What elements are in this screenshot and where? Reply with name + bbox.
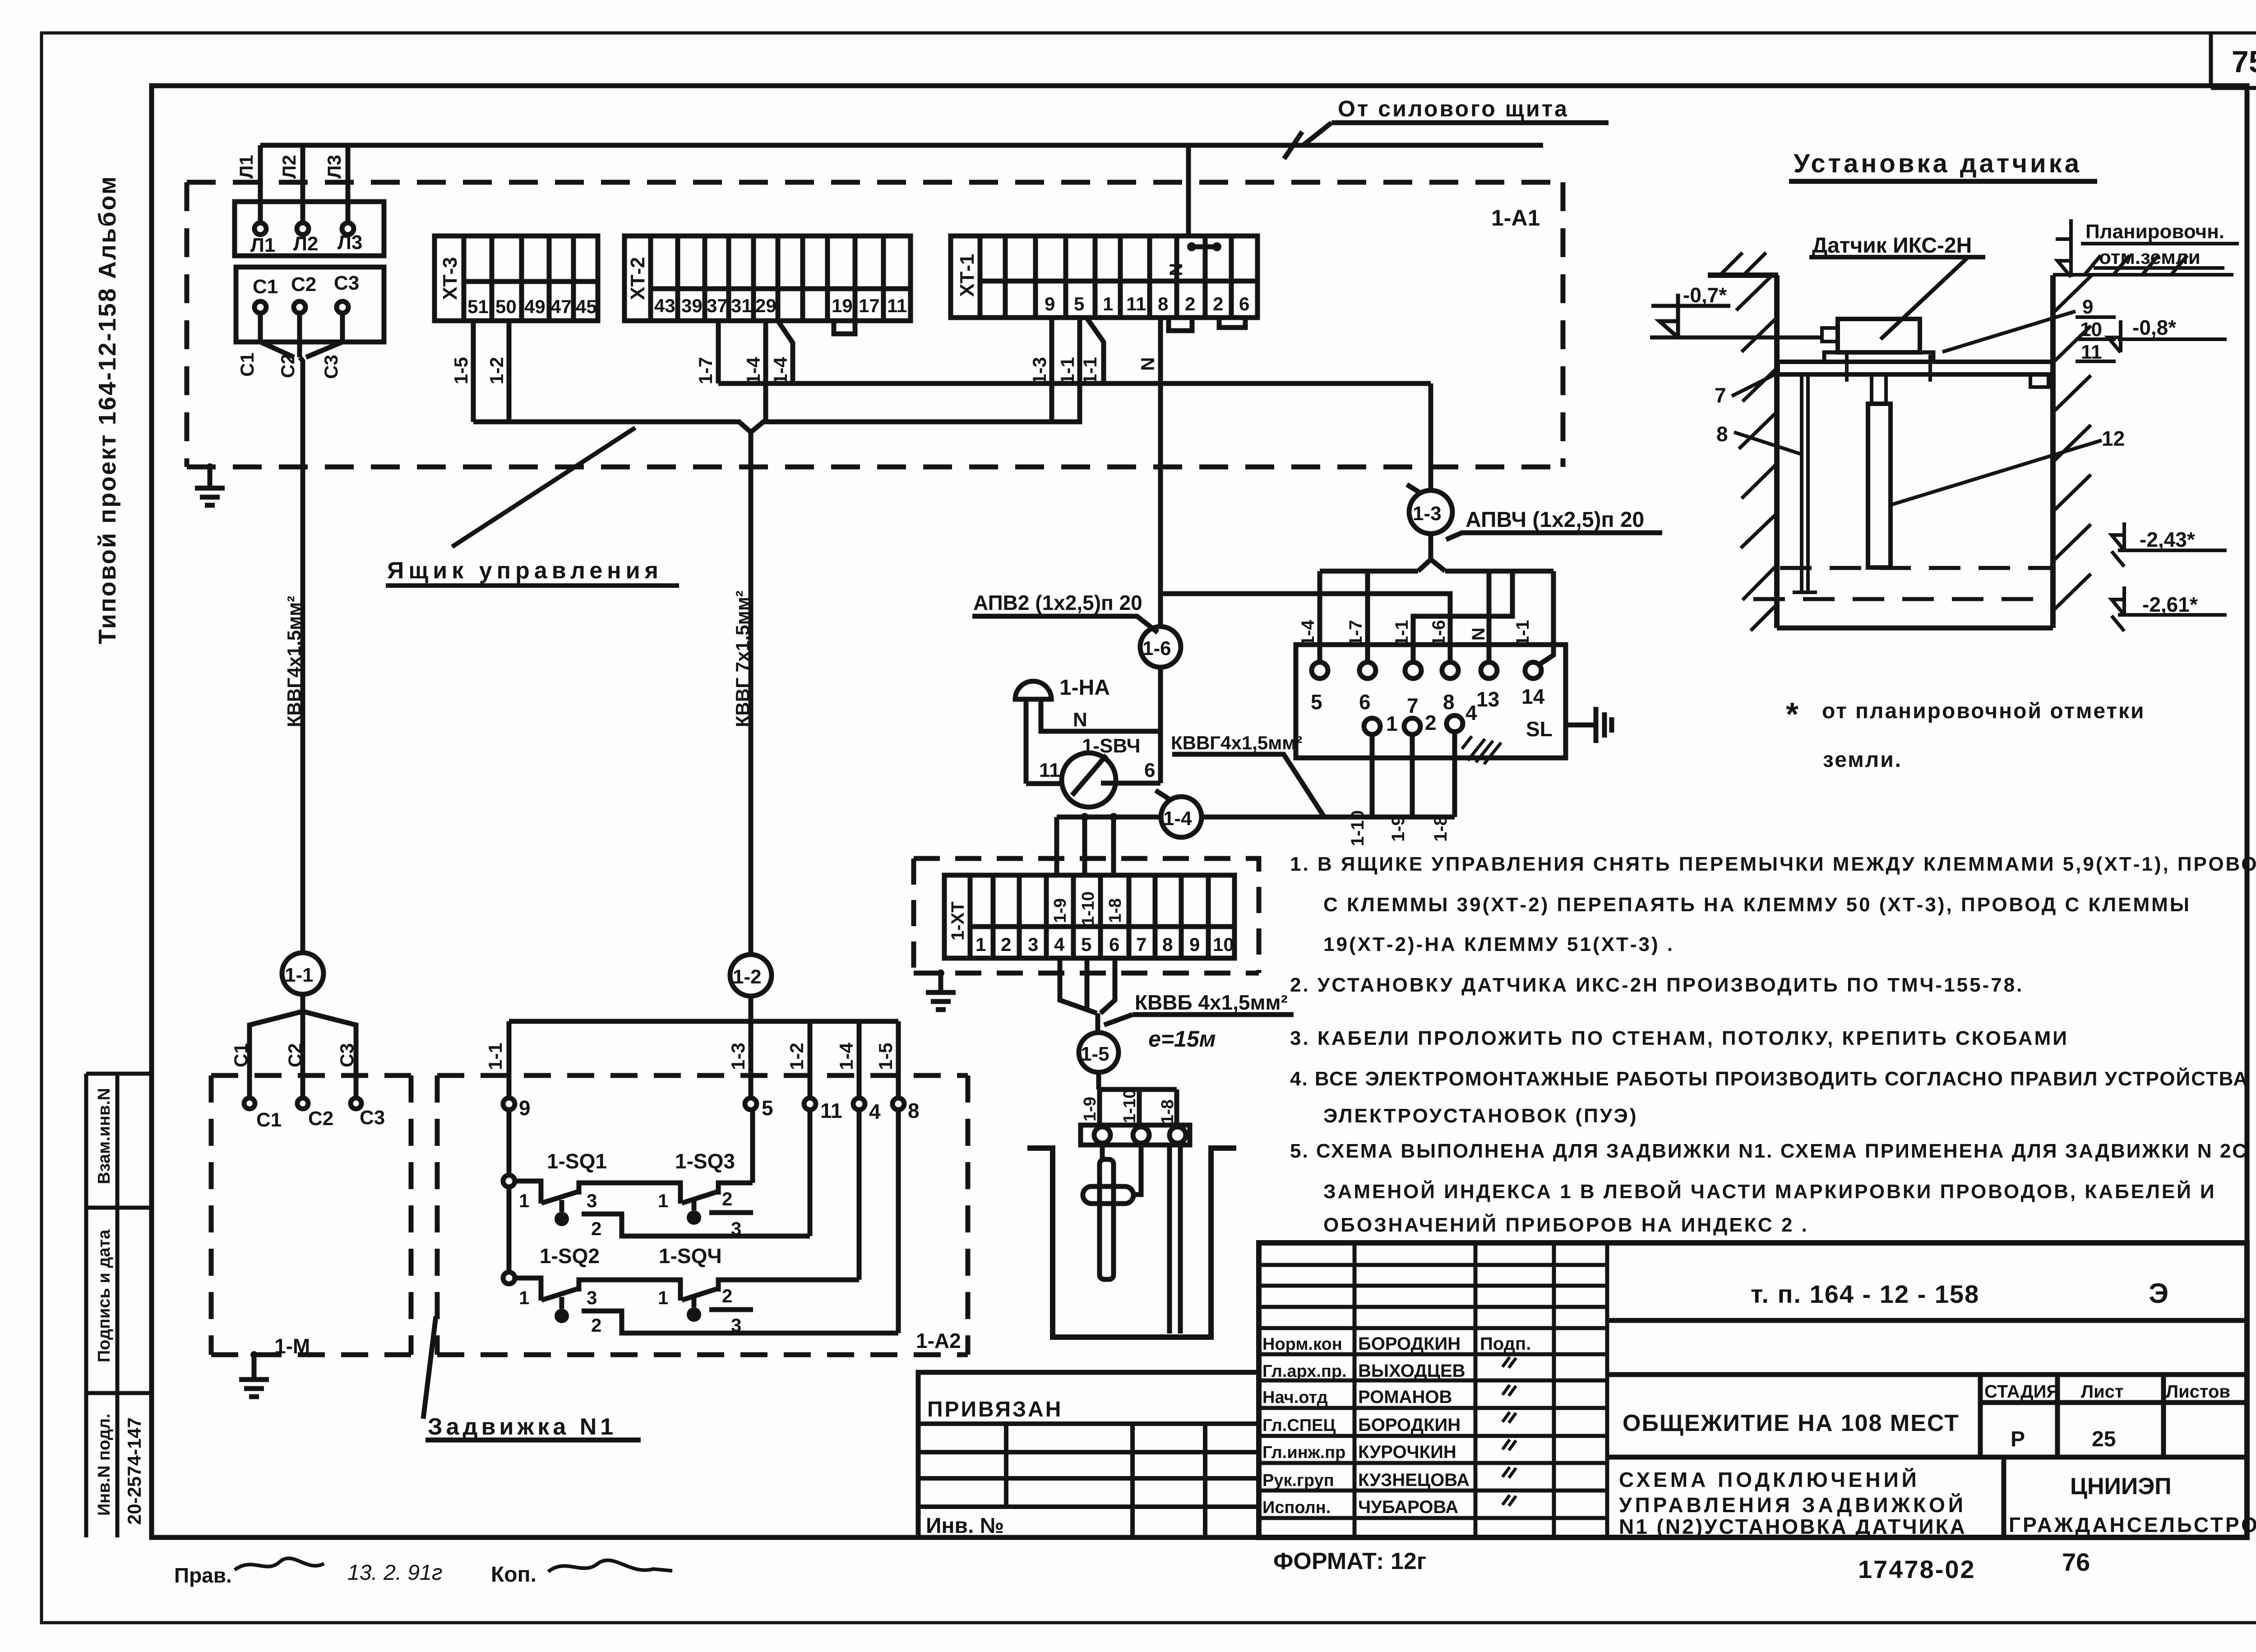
svg-text:2: 2 xyxy=(1185,293,1195,314)
svg-text:ЧУБАРОВА: ЧУБАРОВА xyxy=(1358,1497,1458,1517)
svg-text:С2: С2 xyxy=(291,273,316,295)
switch left lead xyxy=(1026,781,1063,786)
svg-text:1-1: 1-1 xyxy=(1057,357,1078,384)
wire 1-7 to pin 6 xyxy=(1365,571,1370,662)
sensor side stub xyxy=(1822,328,1838,341)
level mark -0,7 xyxy=(1651,294,1730,337)
svg-text:10: 10 xyxy=(2080,318,2102,341)
ground below valve box xyxy=(239,1355,269,1397)
svg-text:1-SQ2: 1-SQ2 xyxy=(540,1244,600,1268)
svg-text:-2,43*: -2,43* xyxy=(2140,528,2195,551)
wire 1-4 to pin 5 xyxy=(1318,571,1322,662)
svg-text:С1: С1 xyxy=(230,1043,251,1067)
svg-text:19(ХТ-2)-НА КЛЕММУ 51(ХТ-3) .: 19(ХТ-2)-НА КЛЕММУ 51(ХТ-3) . xyxy=(1323,933,1674,955)
svg-text:7: 7 xyxy=(1715,383,1726,407)
labels 9 10 11 stack lines xyxy=(2076,317,2116,361)
svg-text:СХЕМА ПОДКЛЮЧЕНИЙ: СХЕМА ПОДКЛЮЧЕНИЙ xyxy=(1619,1468,1920,1491)
svg-text:9: 9 xyxy=(1045,293,1055,314)
jumper link in XT-1 top row xyxy=(1192,245,1217,249)
cable marker circle 1-6 xyxy=(1140,627,1181,667)
wire 1-10 from pin 1 xyxy=(1370,734,1375,817)
sensor cable bus A right segment xyxy=(1445,569,1553,574)
svg-text:SL: SL xyxy=(1526,717,1553,741)
svg-text:Гл.арх.пр.: Гл.арх.пр. xyxy=(1262,1362,1347,1381)
svg-text:С1: С1 xyxy=(256,1109,282,1131)
svg-text:1-6: 1-6 xyxy=(1142,637,1171,660)
wire 1-6 branch from N riser to pin 8 xyxy=(1160,594,1450,662)
svg-text:N: N xyxy=(1469,628,1489,641)
fan to bracket xyxy=(1100,1089,1177,1125)
svg-text:2: 2 xyxy=(591,1218,601,1239)
svg-text:СТАДИЯ: СТАДИЯ xyxy=(1984,1382,2059,1402)
svg-text:5: 5 xyxy=(762,1096,773,1120)
wire 1-8 from pin 4 xyxy=(1452,732,1457,817)
svg-text:11: 11 xyxy=(887,295,907,316)
svg-text:Л3: Л3 xyxy=(324,155,345,179)
limit switch 1-SQ1 contacts xyxy=(515,1181,680,1204)
svg-text:Планировочн.: Планировочн. xyxy=(2085,221,2224,243)
svg-text:С1: С1 xyxy=(253,276,278,298)
svg-text:1-А1: 1-А1 xyxy=(1491,205,1540,231)
svg-text:ЭЛЕКТРОУСТАНОВОК (ПУЭ): ЭЛЕКТРОУСТАНОВОК (ПУЭ) xyxy=(1323,1105,1638,1127)
terminal block XT-3 xyxy=(435,236,598,321)
anchor rod left xyxy=(1793,374,1817,592)
leader from 9 to plate xyxy=(1942,311,2076,352)
SQ3 actuator dot xyxy=(692,1200,697,1210)
svg-text:1: 1 xyxy=(658,1287,668,1308)
svg-text:1-10: 1-10 xyxy=(1348,810,1368,846)
wire N from XT-1 terminal 8 xyxy=(1158,318,1163,783)
svg-text:4: 4 xyxy=(1465,701,1477,724)
svg-text:13. 2. 91г: 13. 2. 91г xyxy=(347,1561,443,1585)
svg-text:ХТ-1: ХТ-1 xyxy=(956,254,978,297)
svg-text:1-8: 1-8 xyxy=(1106,898,1125,923)
svg-text:1-8: 1-8 xyxy=(1158,1099,1177,1124)
svg-text:С3: С3 xyxy=(360,1107,385,1129)
SQ1 pivot circle xyxy=(503,1175,515,1187)
svg-text:5. СХЕМА ВЫПОЛНЕНА ДЛЯ ЗАД: 5. СХЕМА ВЫПОЛНЕНА ДЛЯ ЗАДВИЖКИ N1. СХЕМ… xyxy=(1290,1140,2248,1162)
svg-text:-0,8*: -0,8* xyxy=(2132,316,2176,339)
svg-text:Л1: Л1 xyxy=(236,155,257,179)
svg-text:1-7: 1-7 xyxy=(695,357,716,384)
jumper stub below XT-2 cells 17-11 xyxy=(834,321,855,334)
svg-text:АПВЧ (1х2,5)п 20: АПВЧ (1х2,5)п 20 xyxy=(1465,508,1644,532)
svg-text:Листов: Листов xyxy=(2166,1382,2230,1402)
svg-text:Р: Р xyxy=(2011,1427,2025,1451)
svg-text:1-SQ1: 1-SQ1 xyxy=(547,1149,607,1173)
svg-text:39: 39 xyxy=(681,295,703,316)
svg-text:1-SQ3: 1-SQ3 xyxy=(675,1149,735,1173)
svg-text:Л1: Л1 xyxy=(250,234,275,256)
svg-text:75: 75 xyxy=(2232,45,2256,79)
wire 1-1 to pin 7 with jog xyxy=(1413,571,1512,662)
stub 1-5 to terminal 8 xyxy=(896,1021,901,1098)
dashed enclosure 1-A1 (control box) xyxy=(187,182,1563,467)
svg-text:7: 7 xyxy=(1136,934,1146,955)
svg-text:6: 6 xyxy=(1109,934,1119,955)
hatch marks near pin 4 xyxy=(1462,736,1501,764)
top power wire xyxy=(260,143,1543,148)
svg-text:11: 11 xyxy=(1039,759,1060,781)
svg-text:1-1: 1-1 xyxy=(1392,620,1412,646)
svg-text:С3: С3 xyxy=(336,1043,357,1067)
svg-text:Лист: Лист xyxy=(2081,1382,2124,1402)
svg-text:ХТ-3: ХТ-3 xyxy=(439,257,461,300)
svg-text:ГРАЖДАНСЕЛЬСТРОЙ: ГРАЖДАНСЕЛЬСТРОЙ xyxy=(2009,1513,2256,1537)
leader from Ящик управления to box xyxy=(452,428,635,547)
wire 1-4 from XT-2 terminal 29 xyxy=(763,321,768,422)
wire L3 xyxy=(346,145,351,223)
svg-text:1-1: 1-1 xyxy=(285,964,314,986)
svg-text:ЗАМЕНОЙ ИНДЕКСА 1 В ЛЕВОЙ ЧА: ЗАМЕНОЙ ИНДЕКСА 1 В ЛЕВОЙ ЧАСТИ МАРКИРОВ… xyxy=(1323,1180,2216,1203)
wire 1-7 from XT-2 terminal 37 xyxy=(716,321,721,383)
svg-text:Типовой проект 164-12-158 А: Типовой проект 164-12-158 Альбом xyxy=(94,175,121,644)
wire drop to XT-1 N terminal xyxy=(1186,145,1191,236)
left attachment table xyxy=(918,1372,1259,1537)
svg-text:1-А2: 1-А2 xyxy=(916,1329,961,1352)
switch blade xyxy=(1072,755,1106,795)
svg-text:2: 2 xyxy=(722,1188,732,1209)
svg-text:БОРОДКИН: БОРОДКИН xyxy=(1358,1415,1461,1435)
svg-text:отм.земли: отм.земли xyxy=(2099,246,2201,268)
svg-text:С КЛЕММЫ 39(ХТ-2) ПЕРЕПАЯТЬ Н: С КЛЕММЫ 39(ХТ-2) ПЕРЕПАЯТЬ НА КЛЕММУ 50… xyxy=(1323,894,2191,916)
wires below 1-XT merging to cable 1-5 xyxy=(1060,958,1115,1033)
water level dashed lower xyxy=(1753,597,2053,601)
svg-text:2: 2 xyxy=(722,1285,732,1306)
svg-text:С3: С3 xyxy=(320,355,342,379)
wire 1-1 to pin 14 xyxy=(1539,571,1553,665)
bus of cable 1-2 with Y merge xyxy=(473,318,1080,432)
svg-text:1-7: 1-7 xyxy=(1346,620,1366,646)
svg-text:47: 47 xyxy=(550,296,572,317)
underline Датчик ИКС-2Н xyxy=(1809,255,1985,259)
wire 1-3 from XT-1 terminal 9 xyxy=(1049,318,1054,422)
svg-text:ПРИВЯЗАН: ПРИВЯЗАН xyxy=(927,1398,1063,1421)
svg-text:от планировочной отметки: от планировочной отметки xyxy=(1822,699,2145,723)
svg-text:1-1: 1-1 xyxy=(1079,357,1100,384)
svg-text:УПРАВЛЕНИЯ ЗАДВИЖКОЙ: УПРАВЛЕНИЯ ЗАДВИЖКОЙ xyxy=(1619,1493,1966,1517)
level mark -2,43 xyxy=(2112,522,2227,567)
svg-text:1-6: 1-6 xyxy=(1429,620,1449,646)
svg-text:9: 9 xyxy=(2082,296,2093,318)
svg-text:12: 12 xyxy=(2102,427,2125,450)
jumper stub below XT-1 cells 8-2 xyxy=(1169,318,1192,331)
svg-text:1-1: 1-1 xyxy=(1513,620,1533,646)
svg-text:ФОРМАТ: 12г: ФОРМАТ: 12г xyxy=(1273,1548,1426,1574)
right wall of pit xyxy=(2050,275,2056,628)
pipe right pair xyxy=(1170,1145,1180,1334)
svg-text:1-10: 1-10 xyxy=(1120,1089,1139,1123)
svg-text:Инв.N подл.: Инв.N подл. xyxy=(95,1413,114,1516)
svg-text:1-2: 1-2 xyxy=(486,357,507,384)
svg-text:1-4: 1-4 xyxy=(836,1043,857,1070)
svg-text:1-5: 1-5 xyxy=(1081,1043,1110,1065)
svg-text:e=15м: e=15м xyxy=(1148,1026,1216,1052)
SQ2 actuator dot xyxy=(559,1297,564,1309)
svg-text:5: 5 xyxy=(1081,934,1091,955)
svg-text:КВВГ4х1,5мм²: КВВГ4х1,5мм² xyxy=(1171,732,1302,753)
svg-text:Рук.груп: Рук.груп xyxy=(1262,1471,1334,1490)
svg-text:9: 9 xyxy=(519,1096,531,1120)
terminal block 1-XT xyxy=(944,875,1234,958)
wire terminal 9 to SQ pivots xyxy=(507,1110,512,1278)
float hanger wire xyxy=(1133,1145,1141,1195)
svg-text:БОРОДКИН: БОРОДКИН xyxy=(1358,1334,1461,1354)
svg-text:8: 8 xyxy=(908,1099,920,1122)
wire below 1-5 xyxy=(1096,1072,1101,1089)
underline КВВГ4х1,5 with leader to bus xyxy=(1172,754,1324,817)
svg-text:37: 37 xyxy=(707,295,728,316)
SQ3 contact 3 underline xyxy=(709,1210,753,1215)
svg-text:N: N xyxy=(1166,263,1186,276)
svg-text:РОМАНОВ: РОМАНОВ xyxy=(1358,1387,1452,1407)
sensor cable bus A left segment xyxy=(1320,569,1418,574)
svg-text:ОБОЗНАЧЕНИЙ ПРИБОРОВ НА ИН: ОБОЗНАЧЕНИЙ ПРИБОРОВ НА ИНДЕКС 2 . xyxy=(1323,1213,1809,1236)
svg-text:*: * xyxy=(1786,697,1798,733)
page number box 75 xyxy=(2211,33,2256,88)
svg-text:1-4: 1-4 xyxy=(770,357,791,384)
ground at SL box xyxy=(1566,707,1612,743)
probe hanger wire xyxy=(1100,1145,1105,1159)
lamp right lead and N link xyxy=(1041,699,1160,731)
svg-text:1: 1 xyxy=(975,934,986,955)
svg-text:29: 29 xyxy=(755,295,777,316)
svg-text:АПВ2 (1х2,5)п 20: АПВ2 (1х2,5)п 20 xyxy=(973,591,1142,614)
svg-text:1: 1 xyxy=(1103,293,1113,314)
leader to От силового щита xyxy=(1303,123,1609,145)
svg-text:1: 1 xyxy=(519,1287,529,1308)
svg-text:8: 8 xyxy=(1162,934,1173,955)
svg-text:КВВГ 7х1,5мм²: КВВГ 7х1,5мм² xyxy=(732,591,753,727)
junction dots on bus xyxy=(1081,813,1089,821)
bracket circles xyxy=(1094,1127,1110,1143)
SQ4 contact 3 underline xyxy=(709,1307,753,1312)
leader from label to sensor xyxy=(1881,258,1967,339)
svg-text:Гл.СПЕЦ: Гл.СПЕЦ xyxy=(1262,1416,1336,1435)
svg-text:43: 43 xyxy=(654,295,675,316)
mounting bracket bar xyxy=(1081,1125,1190,1145)
svg-text:Норм.кон: Норм.кон xyxy=(1262,1335,1342,1354)
dashed valve box left part xyxy=(211,1075,411,1355)
svg-text:76: 76 xyxy=(2062,1548,2090,1576)
svg-text:Коп.: Коп. xyxy=(491,1563,536,1587)
svg-text:Взам.инв.N: Взам.инв.N xyxy=(95,1088,114,1184)
lamp left lead xyxy=(1024,699,1029,784)
probe float xyxy=(1083,1186,1133,1204)
conduit line into sensor xyxy=(1650,336,1822,340)
fan below circle 1-3 xyxy=(1418,534,1445,571)
svg-text:С2: С2 xyxy=(284,1043,305,1067)
svg-text:25: 25 xyxy=(2092,1427,2116,1451)
ground below 1-XT dashed box xyxy=(926,973,956,1010)
SQ4 actuator dot xyxy=(692,1297,697,1307)
terminal block XT-2 xyxy=(624,236,911,321)
limit switch 1-SQ3 contacts xyxy=(682,1183,753,1203)
svg-text:N: N xyxy=(1137,357,1158,371)
svg-text:3: 3 xyxy=(731,1315,741,1336)
valve top bus from cable 1-2 xyxy=(509,996,898,1021)
lamp 1-HA xyxy=(1015,681,1051,699)
svg-text:45: 45 xyxy=(576,296,597,317)
switch 1-SBЧ circle xyxy=(1062,753,1116,807)
stub 1-2 to terminal 11 xyxy=(808,1021,813,1098)
svg-text:Подпись и дата: Подпись и дата xyxy=(95,1229,114,1362)
pit walls xyxy=(1027,1148,1236,1337)
arrow tick at circle 1-3 xyxy=(1407,485,1425,496)
title block right verticals xyxy=(1980,1375,2164,1537)
svg-text:ХТ-2: ХТ-2 xyxy=(627,257,649,300)
svg-text:11: 11 xyxy=(1126,293,1146,314)
wire terminal 5 to SQ3 contact 2 xyxy=(750,1110,755,1183)
svg-text:Гл.инж.пр: Гл.инж.пр xyxy=(1262,1443,1345,1462)
svg-text:1-5: 1-5 xyxy=(450,357,472,384)
svg-text:9: 9 xyxy=(1189,934,1200,955)
left wall of pit xyxy=(1708,275,1778,628)
level mark -2,61 xyxy=(2112,586,2227,631)
svg-text:N1 (N2)УСТАНОВКА ДАТЧИКА: N1 (N2)УСТАНОВКА ДАТЧИКА xyxy=(1619,1515,1967,1538)
mounting plate xyxy=(1778,362,2053,374)
svg-text:3: 3 xyxy=(1028,934,1038,955)
svg-text:31: 31 xyxy=(731,295,752,316)
svg-text:3: 3 xyxy=(587,1287,597,1308)
svg-text:1-4: 1-4 xyxy=(743,357,764,384)
limit switch 1-SQ4 contacts xyxy=(682,1280,859,1300)
svg-text:2: 2 xyxy=(591,1315,601,1336)
title block verticals left table xyxy=(1355,1243,1607,1537)
svg-text:1-2: 1-2 xyxy=(786,1043,807,1070)
svg-text:1: 1 xyxy=(519,1190,529,1211)
svg-text:N: N xyxy=(1073,709,1087,731)
cable marker circle 1-1 xyxy=(282,953,324,994)
svg-text:1-SВЧ: 1-SВЧ xyxy=(1082,735,1141,757)
underline АПВЧ xyxy=(1446,533,1662,540)
svg-text:КУЗНЕЦОВА: КУЗНЕЦОВА xyxy=(1358,1470,1470,1490)
svg-text:Ящик управления: Ящик управления xyxy=(387,558,663,584)
leader Задвижка N1 xyxy=(423,1316,641,1440)
svg-text:1-ХТ: 1-ХТ xyxy=(948,901,968,941)
svg-text:8: 8 xyxy=(1443,690,1455,714)
wire 1-2 from XT-3 terminal 50 xyxy=(507,321,512,422)
svg-text:1-1: 1-1 xyxy=(485,1043,506,1070)
svg-text:49: 49 xyxy=(524,296,546,317)
svg-text:17: 17 xyxy=(859,295,880,316)
leader 7 xyxy=(1732,374,1777,396)
svg-text:2. УСТАНОВКУ ДАТЧИКА ИКС-2Н: 2. УСТАНОВКУ ДАТЧИКА ИКС-2Н ПРОИЗВОДИТЬ … xyxy=(1290,974,2024,996)
svg-text:КВВБ 4х1,5мм²: КВВБ 4х1,5мм² xyxy=(1135,991,1288,1014)
svg-text:1-3: 1-3 xyxy=(1029,357,1050,384)
svg-text:Установка датчика: Установка датчика xyxy=(1794,149,2082,178)
underline КВВБ with leader xyxy=(1104,1015,1294,1025)
svg-text:Задвижка N1: Задвижка N1 xyxy=(428,1414,617,1440)
svg-text:ВЫХОДЦЕВ: ВЫХОДЦЕВ xyxy=(1358,1361,1465,1381)
jumper stub below XT-1 cells 2-6 xyxy=(1219,318,1245,328)
arrow tick at circle 1-4 xyxy=(1156,790,1172,801)
dashed valve box right part 1-A2 xyxy=(437,1075,968,1355)
svg-text:17478-02: 17478-02 xyxy=(1858,1555,1976,1583)
svg-text:1-3: 1-3 xyxy=(1413,503,1442,525)
pit bottom xyxy=(1777,626,2053,631)
svg-text:10: 10 xyxy=(1213,934,1234,955)
svg-text:С3: С3 xyxy=(334,272,359,294)
level flag Планировочн отм земли xyxy=(2056,219,2239,277)
drop wires to 1-XT cells 4 5 6 xyxy=(1057,817,1114,875)
wire terminal 11 to SQ1 contact 2 row xyxy=(808,1110,813,1236)
svg-text:Исполн.: Исполн. xyxy=(1262,1498,1331,1517)
svg-text:1-2: 1-2 xyxy=(733,966,762,988)
svg-text:1-9: 1-9 xyxy=(1051,898,1070,923)
title block left table rows xyxy=(1259,1265,1607,1518)
ground surface right with hatch xyxy=(2053,255,2233,275)
svg-text:С2: С2 xyxy=(308,1107,333,1130)
svg-text:3. КАБЕЛИ ПРОЛОЖИТЬ ПО СТЕ: 3. КАБЕЛИ ПРОЛОЖИТЬ ПО СТЕНАМ, ПОТОЛКУ, … xyxy=(1290,1027,2069,1049)
svg-text:6: 6 xyxy=(1359,690,1371,714)
svg-text:1-10: 1-10 xyxy=(1079,891,1098,926)
svg-text:1-3: 1-3 xyxy=(727,1043,749,1070)
SQ2 pivot circle xyxy=(503,1272,515,1284)
wire 1-1 from XT-1 terminal 1 xyxy=(1086,318,1104,383)
svg-text:1-9: 1-9 xyxy=(1081,1097,1100,1121)
svg-text:1. В ЯЩИКЕ УПРАВЛЕНИЯ СНЯТЬ: 1. В ЯЩИКЕ УПРАВЛЕНИЯ СНЯТЬ ПЕРЕМЫЧКИ МЕ… xyxy=(1290,853,2256,875)
svg-text:-2,61*: -2,61* xyxy=(2142,593,2198,616)
ground at control box bottom-left xyxy=(195,467,225,505)
svg-text:ОБЩЕЖИТИЕ НА 108 МЕСТ: ОБЩЕЖИТИЕ НА 108 МЕСТ xyxy=(1623,1410,1960,1436)
cable marker circle 1-4 xyxy=(1161,797,1202,837)
underline Ящик управления xyxy=(386,583,679,588)
svg-text:1: 1 xyxy=(1386,712,1398,735)
svg-text:8: 8 xyxy=(1158,293,1168,314)
svg-text:1-М: 1-М xyxy=(274,1334,310,1358)
probe stem xyxy=(1872,374,1886,404)
svg-text:С2: С2 xyxy=(277,354,298,378)
svg-text:3: 3 xyxy=(587,1190,597,1211)
svg-text:КУРОЧКИН: КУРОЧКИН xyxy=(1358,1442,1456,1462)
svg-text:Датчик ИКС-2Н: Датчик ИКС-2Н xyxy=(1812,234,1972,258)
stub 1-4 to terminal 4 xyxy=(857,1021,862,1098)
signature Коп row xyxy=(548,1560,672,1572)
svg-text:20-2574-147: 20-2574-147 xyxy=(124,1417,145,1525)
svg-text:Л2: Л2 xyxy=(278,155,300,179)
water level dashed upper xyxy=(1780,566,2053,570)
SQ1 actuator dot xyxy=(559,1200,564,1212)
wire 1-9 from pin 2 xyxy=(1410,734,1415,817)
svg-text:Э: Э xyxy=(2149,1278,2168,1309)
svg-text:4: 4 xyxy=(869,1100,881,1123)
svg-text:1-4: 1-4 xyxy=(1163,808,1192,830)
wire 1-5 from XT-3 terminal 51 xyxy=(471,321,476,422)
valve terminal circles C1 C2 C3 xyxy=(244,1098,255,1109)
left stamp boxes xyxy=(86,1074,152,1537)
svg-text:4: 4 xyxy=(1054,934,1065,955)
switch right lead xyxy=(1101,781,1160,786)
cable 1-2 down line xyxy=(749,432,754,955)
svg-text:4. ВСЕ ЭЛЕКТРОМОНТАЖНЫЕ РАБ: 4. ВСЕ ЭЛЕКТРОМОНТАЖНЫЕ РАБОТЫ ПРОИЗВОДИ… xyxy=(1290,1067,2248,1090)
svg-text:50: 50 xyxy=(495,296,517,317)
svg-text:1-НА: 1-НА xyxy=(1059,676,1110,700)
terminal block XT-1 xyxy=(951,236,1257,318)
svg-text:51: 51 xyxy=(467,296,489,317)
title block right horizontals xyxy=(1607,1320,2247,1457)
svg-text:6: 6 xyxy=(1239,293,1249,314)
small step under plate right xyxy=(2030,374,2048,387)
SQ1 contact 2 stepped line to terminal 11 xyxy=(582,1214,810,1236)
wire 1-4 second from XT-2 xyxy=(778,321,793,383)
stub 1-3 to terminal 5 xyxy=(749,1021,754,1098)
wire terminal 4 to SQ4 contact 2 row xyxy=(857,1110,862,1280)
level mark -0,8 xyxy=(2108,320,2227,352)
valve terminal circles 9 5 11 4 8 xyxy=(503,1098,515,1110)
cable break mark on power wire xyxy=(1284,132,1302,159)
wire L2 xyxy=(300,145,305,223)
